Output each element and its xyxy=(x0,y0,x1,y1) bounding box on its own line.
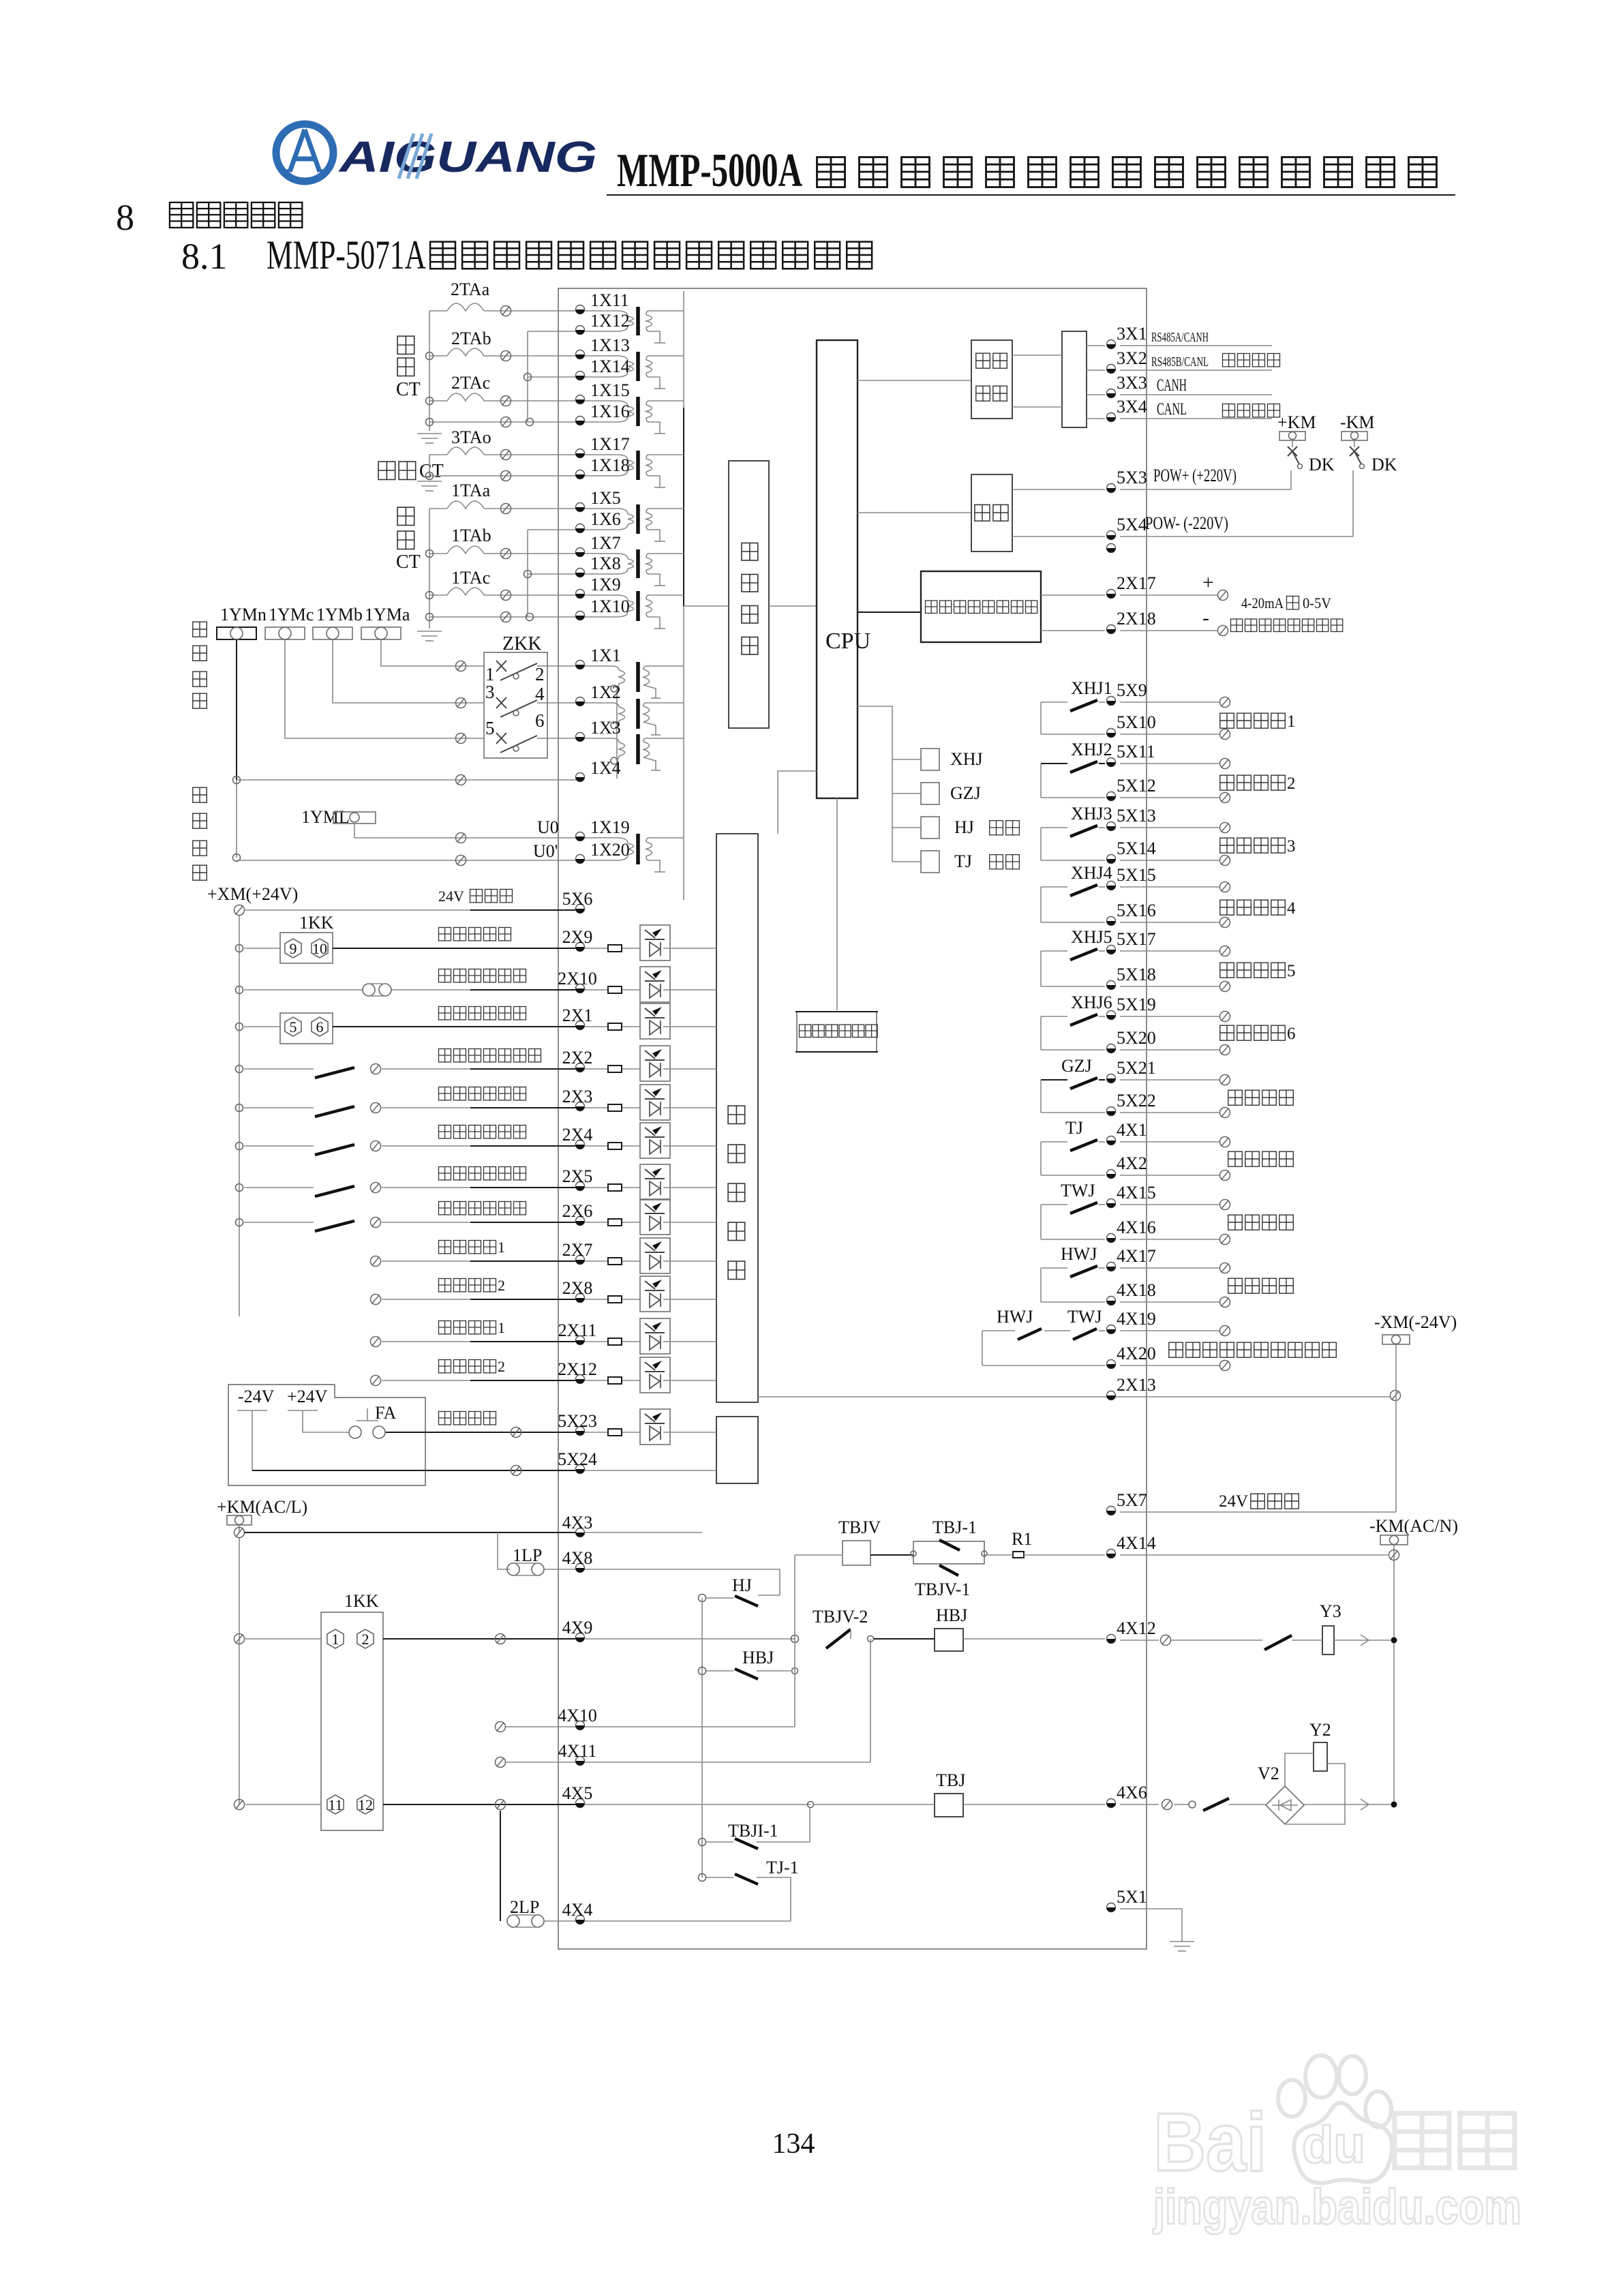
PT transformer primary row 1083 xyxy=(585,738,619,742)
svg-text:1YMa: 1YMa xyxy=(365,605,410,624)
svg-text:RS485B/CANL: RS485B/CANL xyxy=(1151,354,1209,369)
transformer T1 1X11/1X12 xyxy=(585,311,628,316)
svg-text:HWJ: HWJ xyxy=(1061,1244,1097,1264)
output wire row y=2003 xyxy=(1120,1365,1220,1366)
1TA rail xyxy=(429,509,430,629)
svg-text:24V: 24V xyxy=(438,888,464,905)
svg-text:U0: U0 xyxy=(537,817,559,837)
svg-text:XHJ4: XHJ4 xyxy=(1071,863,1112,883)
terminal 2X7 xyxy=(576,1256,585,1265)
phi 4X14 on rail xyxy=(1389,1550,1399,1560)
svg-text:3: 3 xyxy=(1287,837,1296,856)
terminal 1X17 xyxy=(576,449,585,458)
terminal 2X4 xyxy=(576,1141,585,1149)
svg-text:POW+ (+220V): POW+ (+220V) xyxy=(1153,466,1237,485)
svg-text:1TAb: 1TAb xyxy=(451,526,491,545)
svg-text:4X20: 4X20 xyxy=(1117,1344,1156,1363)
junction circle 1X16 xyxy=(526,419,534,426)
block 模拟滤波 xyxy=(729,461,769,728)
svg-text:5X21: 5X21 xyxy=(1117,1058,1156,1078)
terminal 5X3 xyxy=(1107,484,1116,493)
phi 1KK row2 xyxy=(234,1800,245,1810)
junction 4X9/TBJV-2 xyxy=(791,1635,799,1643)
phi 2TAb xyxy=(501,351,511,361)
optocoupler input row y=1391 xyxy=(585,948,608,949)
heading chinese 装置原理图 xyxy=(170,202,194,228)
svg-text:2X10: 2X10 xyxy=(558,969,597,988)
rail circle U0' row xyxy=(233,854,241,862)
svg-text:4X10: 4X10 xyxy=(558,1706,597,1725)
PT secondary row 977 xyxy=(643,666,646,669)
wire 2LP to 4X4 xyxy=(544,1920,580,1922)
svg-text:-KM: -KM xyxy=(1340,412,1375,432)
svg-text:HBJ: HBJ xyxy=(742,1648,774,1667)
svg-text:1KK: 1KK xyxy=(344,1591,379,1611)
wire HBJ to 4X12 xyxy=(963,1638,1105,1640)
terminal 1X1 xyxy=(576,661,585,669)
svg-text:6: 6 xyxy=(1287,1025,1296,1043)
wire V2 top to Y2 xyxy=(1285,1753,1314,1786)
terminal 4X20 xyxy=(1107,1360,1116,1369)
relay driver box XHJ xyxy=(921,749,939,770)
phi 1TAb xyxy=(501,549,511,559)
optocoupler input row y=1742 xyxy=(585,1187,608,1188)
terminal 4X2 xyxy=(1107,1170,1116,1179)
svg-text:2: 2 xyxy=(535,664,545,684)
svg-text:24V: 24V xyxy=(1219,1492,1248,1511)
phi 2TAc xyxy=(501,396,511,406)
1KK contacts 11-12 xyxy=(327,1795,344,1814)
terminal 2X8 xyxy=(576,1294,585,1303)
rail x1030 HJ-HBJ-TBJI-TJ xyxy=(701,1598,703,1877)
PT core row 1083 xyxy=(636,734,640,764)
terminal 5X23 xyxy=(576,1427,585,1436)
terminal 2X11 xyxy=(576,1336,585,1345)
left rail 1YMn xyxy=(236,639,237,780)
svg-text:2X9: 2X9 xyxy=(562,927,593,947)
connector block 3X xyxy=(1062,331,1087,427)
svg-text:5X22: 5X22 xyxy=(1117,1091,1156,1111)
terminal 1X13 xyxy=(576,350,585,359)
label 通讯电缆 upper xyxy=(1223,354,1235,367)
svg-text:9: 9 xyxy=(290,940,297,957)
svg-text:4: 4 xyxy=(1287,899,1296,918)
terminal 1X11 xyxy=(576,305,585,314)
wire 3X4 row right xyxy=(1120,418,1272,419)
1TA return vertical xyxy=(527,530,528,617)
svg-text:5X18: 5X18 xyxy=(1117,965,1156,984)
phi 1X16 row xyxy=(501,417,511,427)
wire rail to 1KK row2 xyxy=(244,1804,321,1805)
terminal 4X15 xyxy=(1107,1199,1116,1208)
接地刀闸位置 xyxy=(439,1167,451,1180)
svg-text:2X1: 2X1 xyxy=(562,1006,593,1025)
output wire row y=1170 xyxy=(1120,797,1220,798)
terminal 5X16 xyxy=(1107,917,1116,926)
PT core row 1031 xyxy=(636,699,640,729)
wire 1X18 return row xyxy=(429,475,580,477)
svg-text:HJ: HJ xyxy=(732,1575,752,1595)
svg-text:2LP: 2LP xyxy=(510,1897,539,1917)
svg-text:3X2: 3X2 xyxy=(1117,348,1147,368)
svg-text:4X16: 4X16 xyxy=(1117,1218,1156,1237)
terminal 4X8 xyxy=(576,1564,585,1573)
svg-text:MMP-5071A: MMP-5071A xyxy=(267,232,426,277)
phi U0 xyxy=(456,833,466,843)
svg-text:DK: DK xyxy=(1371,455,1397,474)
arrow V2 xyxy=(1361,1799,1369,1810)
terminal 2X17 xyxy=(1107,590,1116,599)
svg-text:1YMn: 1YMn xyxy=(220,605,267,624)
input row 2X9 closing-lock: rail circle, 1KK 9-10, wire xyxy=(236,945,243,952)
terminal 5X1 xyxy=(1107,1903,1116,1912)
svg-text:1X13: 1X13 xyxy=(590,335,630,355)
contact Y3 row xyxy=(1264,1635,1292,1650)
svg-text:5X14: 5X14 xyxy=(1117,839,1156,858)
vertical x1166 TBJV feed xyxy=(794,1555,795,1727)
svg-text:+24V: +24V xyxy=(287,1387,328,1406)
label 告警输出1 xyxy=(1220,713,1234,728)
svg-text:4X1: 4X1 xyxy=(1117,1120,1147,1140)
wire 5X24 to box xyxy=(585,1470,716,1471)
terminal 5X7 xyxy=(1107,1507,1116,1515)
output wire row y=1077 xyxy=(1120,734,1220,735)
wire 1X6 stub xyxy=(528,529,580,530)
svg-text:1X11: 1X11 xyxy=(590,290,629,310)
optocoupler input row y=2025 xyxy=(585,1380,608,1381)
optocoupler manual reset 5X23 xyxy=(585,1432,608,1433)
svg-text:Y3: Y3 xyxy=(1320,1601,1341,1621)
svg-text:2: 2 xyxy=(498,1358,505,1375)
terminal 2X13 xyxy=(1107,1391,1116,1400)
svg-text:jingyan.baidu.com: jingyan.baidu.com xyxy=(1152,2180,1521,2235)
wires 电源 to 5X3 5X4 xyxy=(1012,489,1105,490)
inner vertical rail (transformer secondary bus) xyxy=(683,291,684,900)
wire 1LP branch up xyxy=(498,1532,510,1569)
phi 1X18 xyxy=(501,471,511,481)
terminal 5X9 xyxy=(1107,697,1116,706)
block CPU xyxy=(817,340,858,798)
output wire row y=1952 xyxy=(1120,1330,1220,1331)
svg-text:+KM(AC/L): +KM(AC/L) xyxy=(217,1497,307,1517)
label 跳闸输出 xyxy=(1228,1151,1243,1166)
terminal 1X20 xyxy=(576,855,585,864)
ground 1TA xyxy=(417,631,442,641)
svg-text:HBJ: HBJ xyxy=(936,1605,967,1625)
svg-text:3TAo: 3TAo xyxy=(451,427,491,447)
contact DK - side xyxy=(1350,447,1359,456)
label 控制回路断线告警输出 xyxy=(1169,1342,1183,1357)
terminal 2X1 xyxy=(576,1021,585,1030)
备用开入1 xyxy=(439,1321,451,1334)
rail circle 1X4 row xyxy=(233,776,241,784)
wire 2LP branch down xyxy=(500,1811,501,1921)
block 液晶汉化显示 xyxy=(797,1012,877,1052)
svg-text:5X23: 5X23 xyxy=(558,1411,597,1431)
rail -KM xyxy=(1393,1545,1395,1804)
manual reset outer box xyxy=(228,1385,425,1485)
svg-text:1: 1 xyxy=(1287,712,1296,731)
svg-text:1X5: 1X5 xyxy=(590,488,621,508)
logo slashes xyxy=(399,134,431,179)
wire +KM to 5X3 xyxy=(1120,489,1291,490)
junction HBJ right xyxy=(792,1668,798,1674)
row labels chinese: 闭锁重合闸 xyxy=(439,928,451,941)
wire transformer bus to filter xyxy=(684,605,729,607)
弹簧储能信号 xyxy=(439,1202,451,1215)
svg-text:4X11: 4X11 xyxy=(558,1741,597,1761)
terminal 4X9 xyxy=(576,1633,585,1642)
wire 1YMc to ZKK row3 xyxy=(285,639,484,738)
heading chinese 数字式线路保护测控装置原理图 xyxy=(430,242,455,269)
terminal 4X19 xyxy=(1107,1325,1116,1334)
phi +XM xyxy=(234,905,245,916)
terminal 5X20 xyxy=(1107,1044,1116,1053)
terminal 4X11 xyxy=(576,1757,585,1766)
transformer T8 U0 1X19/1X20 xyxy=(585,838,628,843)
transformer T6 1X7/1X8 xyxy=(585,554,628,559)
svg-text:TBJV-2: TBJV-2 xyxy=(813,1607,868,1627)
svg-text:GZJ: GZJ xyxy=(950,783,981,803)
svg-text:3: 3 xyxy=(485,682,495,702)
input row 2X7 xyxy=(371,1256,381,1267)
terminal 4X10 xyxy=(576,1721,585,1730)
svg-text:1X10: 1X10 xyxy=(590,596,630,616)
svg-text:1X6: 1X6 xyxy=(590,509,621,529)
block 模拟驱动输出回路 xyxy=(921,571,1041,642)
svg-text:2X7: 2X7 xyxy=(562,1240,593,1260)
svg-text:2X6: 2X6 xyxy=(562,1201,593,1221)
phi 2TAa xyxy=(501,306,511,316)
svg-text:TJ-1: TJ-1 xyxy=(766,1858,799,1877)
terminal 1X8 xyxy=(576,569,585,577)
phi rows 1-3 xyxy=(456,661,466,671)
svg-text:1: 1 xyxy=(498,1239,505,1256)
svg-text:-24V: -24V xyxy=(238,1387,275,1406)
terminal 4X4 xyxy=(576,1916,585,1924)
output wire row y=1030 xyxy=(1120,701,1220,703)
wire 4X9 row inside xyxy=(585,1638,795,1640)
svg-text:1X3: 1X3 xyxy=(590,718,621,738)
label 测量CT vertical xyxy=(397,507,414,525)
wire 1TAc row xyxy=(429,594,447,596)
svg-text:5X7: 5X7 xyxy=(1117,1490,1147,1510)
output wire row y=1675 xyxy=(1120,1141,1220,1143)
wire TBJ row xyxy=(585,1804,810,1805)
svg-text:1KK: 1KK xyxy=(299,913,334,933)
svg-text:2X4: 2X4 xyxy=(562,1125,593,1145)
svg-text:8: 8 xyxy=(116,197,134,238)
phi 2X17 out xyxy=(1218,590,1228,601)
terminal 5X22 xyxy=(1107,1107,1116,1116)
低周减载投入 xyxy=(439,969,451,982)
svg-text:5X11: 5X11 xyxy=(1117,742,1155,761)
input row 2X4 switch xyxy=(236,1143,243,1150)
svg-text:XHJ: XHJ xyxy=(950,749,983,769)
2TA left rail xyxy=(429,311,430,431)
wire 1YMa to ZKK row1 xyxy=(381,639,484,666)
svg-text:1: 1 xyxy=(498,1319,505,1336)
svg-text:HJ: HJ xyxy=(954,817,974,837)
wire 1X8 stub xyxy=(528,573,580,575)
svg-text:CPU: CPU xyxy=(825,629,870,654)
output wire row y=1818 xyxy=(1120,1239,1220,1240)
fuse -KM xyxy=(1380,1535,1408,1545)
phi 1TAa xyxy=(501,504,511,514)
svg-text:2X13: 2X13 xyxy=(1117,1375,1156,1395)
terminal 4X5 xyxy=(576,1799,585,1808)
output wire row y=1262 xyxy=(1120,860,1220,861)
svg-text:1X17: 1X17 xyxy=(590,434,630,454)
wire 1YMb to ZKK row2 xyxy=(333,639,484,703)
phi 1TAc xyxy=(501,590,511,601)
svg-text:8.1: 8.1 xyxy=(181,236,228,277)
logo emblem circle-A xyxy=(276,124,333,181)
input row 2X1: 1KK 5-6 xyxy=(236,1023,243,1031)
label 直流模拟信号输出 xyxy=(1231,619,1243,632)
bottom left rail xyxy=(239,1538,240,1804)
transformer T3 1X15/1X16 xyxy=(585,401,628,406)
svg-text:4X8: 4X8 xyxy=(562,1548,593,1568)
output wire row y=1767 xyxy=(1120,1204,1220,1205)
optocoupler input row y=1793 xyxy=(585,1222,608,1223)
terminal 1X2 xyxy=(576,697,585,706)
wire to HBJ coil xyxy=(874,1638,935,1640)
input row 2X3 switch xyxy=(236,1104,243,1112)
label 零序电压 vertical xyxy=(193,787,207,802)
wire 2TAa row xyxy=(429,310,447,312)
svg-text:1X2: 1X2 xyxy=(590,682,621,702)
svg-text:5X9: 5X9 xyxy=(1117,680,1147,700)
svg-text:DK: DK xyxy=(1309,455,1335,474)
svg-text:5X20: 5X20 xyxy=(1117,1028,1156,1048)
svg-text:1X18: 1X18 xyxy=(590,455,630,475)
terminal 2X5 xyxy=(576,1182,585,1191)
远方控制信号 xyxy=(439,1007,451,1020)
terminal 2X9 xyxy=(576,943,585,952)
wire CPU to power block xyxy=(858,512,971,513)
phi 1X4 xyxy=(456,775,466,785)
svg-text:4X19: 4X19 xyxy=(1117,1309,1156,1329)
svg-text:1X7: 1X7 xyxy=(590,533,621,553)
3TA rail xyxy=(429,455,430,479)
label 保护CT vertical xyxy=(397,336,414,354)
wire rail to 1KK row1 xyxy=(244,1638,321,1640)
svg-text:POW- (-220V): POW- (-220V) xyxy=(1145,513,1228,533)
svg-text:TBJV: TBJV xyxy=(838,1517,881,1537)
terminal 1X5 xyxy=(576,503,585,512)
input row 2X11 xyxy=(371,1337,381,1347)
svg-text:4X17: 4X17 xyxy=(1117,1246,1156,1266)
svg-text:5X15: 5X15 xyxy=(1117,865,1156,885)
label 告警输出5 xyxy=(1220,963,1234,978)
svg-text:4X3: 4X3 xyxy=(562,1513,593,1532)
svg-text:5X10: 5X10 xyxy=(1117,712,1156,732)
-24V bar symbol xyxy=(237,1410,267,1411)
svg-text:2X3: 2X3 xyxy=(562,1087,593,1106)
input row 2X5 switch xyxy=(236,1184,243,1192)
wire CPU to analog-output block xyxy=(858,611,921,613)
svg-text:GZJ: GZJ xyxy=(1061,1056,1092,1076)
output wire row y=1120 xyxy=(1120,763,1220,764)
svg-text:134: 134 xyxy=(772,2128,815,2160)
svg-text:4X14: 4X14 xyxy=(1117,1533,1156,1553)
label 母线电压 vertical xyxy=(193,622,207,637)
svg-text:XHJ6: XHJ6 xyxy=(1071,993,1112,1012)
svg-text:+XM(+24V): +XM(+24V) xyxy=(207,884,298,904)
device outer box xyxy=(558,288,1147,1949)
wire 1LP to 4X8 xyxy=(544,1569,580,1570)
input row 2X8 xyxy=(371,1295,381,1305)
PT common return vertical xyxy=(616,689,618,779)
fuse -XM xyxy=(1382,1335,1410,1344)
terminal 3X2 xyxy=(1107,365,1116,374)
svg-text:TBJV-1: TBJV-1 xyxy=(915,1580,970,1599)
svg-text:4X18: 4X18 xyxy=(1117,1280,1156,1300)
rail -XM xyxy=(1395,1344,1397,1512)
terminal 2X12 xyxy=(576,1375,585,1384)
wires 光电隔离 to connector xyxy=(1012,354,1062,356)
label 合位输出 xyxy=(1228,1278,1243,1293)
svg-text:TJ: TJ xyxy=(1065,1118,1083,1138)
svg-text:2X18: 2X18 xyxy=(1117,609,1156,629)
label 装置故障 xyxy=(1228,1090,1243,1105)
wire 2X18 to output xyxy=(1120,630,1217,631)
svg-text:+KM: +KM xyxy=(1277,412,1316,432)
phi 5X24 xyxy=(511,1466,521,1476)
备用遥信1 xyxy=(439,1241,451,1254)
wire 4X6 row right xyxy=(1120,1804,1159,1805)
baidu watermark xyxy=(1152,2055,1521,2235)
svg-text:HWJ: HWJ xyxy=(997,1307,1033,1327)
wires analog out to 2X17 2X18 xyxy=(1041,594,1105,596)
svg-text:Bai: Bai xyxy=(1153,2096,1266,2188)
wire 4X4 row inside xyxy=(585,1920,791,1922)
wires connector to 3X terminals xyxy=(1087,345,1105,346)
wire CPU to LCD xyxy=(836,798,838,1010)
output wire row y=1910 xyxy=(1120,1301,1220,1303)
svg-text:1X9: 1X9 xyxy=(590,575,621,594)
terminal 5X21 xyxy=(1107,1074,1116,1083)
input row 2X2 switch xyxy=(236,1066,243,1073)
wire filter to CPU xyxy=(769,605,817,607)
arrow Y3 xyxy=(1361,1635,1369,1646)
terminal 1X10 xyxy=(576,611,585,620)
svg-text:Y2: Y2 xyxy=(1309,1720,1331,1740)
svg-text:1YMc: 1YMc xyxy=(269,605,314,624)
block 电源 xyxy=(971,474,1012,552)
terminal 1X12 xyxy=(576,326,585,335)
svg-text:U0': U0' xyxy=(533,841,558,861)
svg-text:2: 2 xyxy=(362,1631,369,1648)
document title chinese part xyxy=(817,157,845,187)
input row 2X12 xyxy=(371,1376,381,1386)
断路器工作位置 xyxy=(439,1049,451,1062)
svg-text:1X16: 1X16 xyxy=(590,402,630,421)
wire Y2 loop to V2 right xyxy=(1286,1764,1345,1824)
terminal 2X10 xyxy=(576,984,585,993)
wire 2TAb row xyxy=(429,355,447,357)
wire 2X17 to output xyxy=(1120,594,1217,596)
wires ZKK to terminals xyxy=(547,665,580,667)
svg-text:-KM(AC/N): -KM(AC/N) xyxy=(1369,1516,1458,1536)
svg-text:4X6: 4X6 xyxy=(1117,1783,1147,1802)
svg-text:du: du xyxy=(1302,2116,1365,2174)
wire 3X1 row right xyxy=(1120,345,1272,346)
phi 2X18 out xyxy=(1218,626,1228,636)
terminal 4X3 xyxy=(576,1528,585,1537)
optocoupler input row y=1681 xyxy=(585,1145,608,1147)
